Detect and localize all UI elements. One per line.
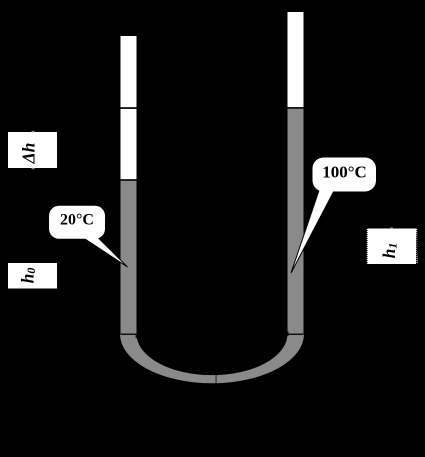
callout 20°C box	[49, 206, 105, 239]
right tube empty (white)	[288, 12, 304, 108]
left tube meniscus line 20C	[121, 179, 137, 181]
svg-text:100°C: 100°C	[322, 163, 367, 182]
left tube empty (white)	[121, 36, 137, 181]
U-bend tube	[120, 334, 304, 383]
right tube liquid (gray)	[288, 109, 304, 335]
right bend seam	[287, 332, 303, 337]
label box h0	[8, 263, 57, 289]
label box Δh	[8, 131, 57, 169]
callout 20°C tail	[81, 236, 128, 267]
callout 100°C box	[313, 158, 377, 192]
callout 100°C tail	[291, 189, 335, 273]
svg-text:20°C: 20°C	[60, 212, 94, 229]
bottom bend seam	[215, 375, 218, 383]
left tube liquid (gray)	[121, 180, 137, 334]
svg-text:Δh: Δh	[19, 143, 39, 165]
left tube level mark line	[121, 107, 137, 109]
right tube meniscus line 100C	[288, 107, 304, 109]
left bend seam	[121, 334, 137, 339]
label box h1 (sawtooth border)	[366, 227, 417, 264]
